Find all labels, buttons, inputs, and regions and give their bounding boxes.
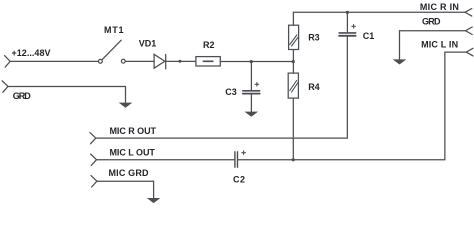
svg-text:C1: C1: [363, 31, 375, 41]
svg-text:MIC L OUT: MIC L OUT: [110, 148, 156, 158]
svg-text:R2: R2: [203, 40, 215, 50]
svg-text:MIC R OUT: MIC R OUT: [110, 126, 157, 136]
svg-text:MIC GRD: MIC GRD: [109, 168, 150, 178]
svg-text:C2: C2: [233, 175, 245, 185]
svg-text:R3: R3: [308, 32, 320, 42]
svg-text:MIC R IN: MIC R IN: [420, 2, 459, 12]
svg-text:C3: C3: [225, 87, 237, 97]
svg-text:GRD: GRD: [13, 91, 32, 101]
svg-text:MIC L IN: MIC L IN: [421, 40, 458, 50]
svg-text:GRD: GRD: [422, 17, 441, 27]
svg-text:R4: R4: [308, 82, 320, 92]
svg-text:+12...48V: +12...48V: [12, 48, 51, 58]
svg-text:MT1: MT1: [104, 25, 124, 35]
svg-text:VD1: VD1: [139, 39, 157, 49]
